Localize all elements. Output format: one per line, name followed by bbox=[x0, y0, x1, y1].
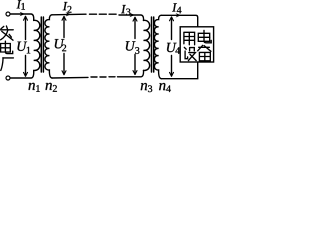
wire top transmission line solid to T2 bbox=[119, 15, 144, 20]
label n3 bbox=[141, 83, 152, 92]
transformer T1 secondary winding n2 bbox=[45, 15, 52, 78]
wire top from T2 secondary to load box bbox=[161, 15, 198, 26]
label I2 bbox=[63, 2, 72, 13]
load box bbox=[180, 27, 213, 62]
wire top-left from terminal to T1 primary bbox=[10, 14, 34, 20]
power plant label char 发 bbox=[0, 26, 13, 40]
current arrow I2 bbox=[66, 12, 71, 16]
label n1 bbox=[29, 83, 40, 92]
load label char 电 bbox=[198, 30, 211, 42]
label U1 bbox=[17, 42, 30, 54]
wire bottom transmission line dashed bbox=[91, 76, 115, 78]
transformer T2 secondary winding n4 bbox=[154, 15, 161, 78]
label n4 bbox=[159, 83, 171, 92]
label I4 bbox=[172, 3, 181, 13]
wire top transmission line dashed bbox=[90, 13, 117, 15]
voltage arrow U4 bbox=[170, 17, 174, 76]
load label char 备 bbox=[198, 45, 211, 60]
wire bottom transmission line solid from T1 bbox=[52, 76, 88, 79]
load label char 用 bbox=[184, 32, 195, 45]
power plant label char 厂 bbox=[1, 58, 14, 71]
voltage arrow U3 bbox=[133, 17, 137, 74]
label U2 bbox=[55, 39, 66, 51]
label U4 bbox=[167, 43, 180, 54]
current arrow I4 bbox=[176, 13, 181, 17]
voltage arrow U1 bbox=[24, 16, 28, 76]
transformer T2 primary winding n3 bbox=[144, 20, 150, 70]
transformer T1 core bbox=[41, 17, 43, 72]
load label char 设 bbox=[184, 47, 196, 60]
transformer T1 primary winding n1 bbox=[34, 20, 40, 70]
wire bottom from T2 secondary to load box bbox=[161, 63, 197, 79]
transformer T2 core bbox=[152, 17, 154, 72]
wire bottom-left from terminal to T1 primary bbox=[10, 70, 34, 78]
power plant label char 电 bbox=[1, 41, 13, 53]
wire bottom transmission line solid to T2 bbox=[118, 70, 144, 76]
label I1 bbox=[17, 0, 25, 9]
terminal bottom-left bbox=[6, 76, 10, 80]
voltage arrow U2 bbox=[62, 16, 66, 74]
current arrow I3 bbox=[129, 13, 134, 17]
current arrow I1 bbox=[20, 12, 25, 16]
label I3 bbox=[121, 5, 130, 15]
wire top transmission line solid from T1 bbox=[52, 13, 86, 16]
terminal top-left bbox=[6, 12, 10, 16]
label U3 bbox=[126, 41, 140, 54]
label n2 bbox=[46, 83, 57, 92]
